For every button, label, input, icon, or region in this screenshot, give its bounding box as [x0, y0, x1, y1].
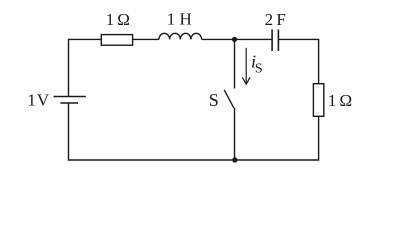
svg-text:1 V: 1 V	[27, 90, 49, 109]
svg-text:2 F: 2 F	[265, 10, 286, 29]
svg-text:S: S	[255, 62, 263, 77]
svg-text:1 Ω: 1 Ω	[328, 91, 352, 110]
svg-text:1 Ω: 1 Ω	[106, 10, 130, 29]
svg-text:1 H: 1 H	[167, 10, 192, 29]
svg-text:S: S	[209, 90, 219, 110]
